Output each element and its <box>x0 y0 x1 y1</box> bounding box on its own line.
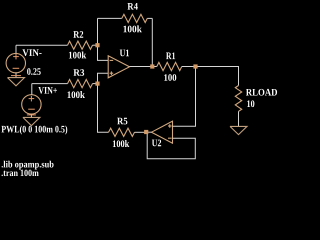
wire R2 to node A <box>93 44 98 46</box>
label R4 <box>127 3 137 10</box>
wire U2 output stub <box>146 131 151 133</box>
minus bar of V2 bottom pin <box>27 114 36 116</box>
label U2 <box>152 140 161 147</box>
wire row A from V1 to R2 <box>16 44 68 46</box>
value 100k of R5 <box>113 140 129 147</box>
wire V1 top vertical <box>15 45 17 53</box>
wire output node down to U2 non-inverting input <box>173 67 196 127</box>
ground under V2 <box>23 117 40 125</box>
resistor R2 <box>68 41 93 49</box>
wire node B down to R5 <box>98 84 109 133</box>
wire R5 to U2 output node <box>135 131 147 133</box>
wire row B from V2 to R3 <box>32 83 68 85</box>
wire R4 right lead <box>147 17 152 19</box>
label R5 <box>117 118 127 125</box>
ground under RLOAD <box>230 126 247 134</box>
value 100k of R3 <box>68 91 85 98</box>
resistor RLOAD <box>235 86 241 112</box>
wire R4 down to output node <box>151 18 153 66</box>
label U1 <box>120 50 129 57</box>
wire U2 inverting input feedback loop <box>147 133 195 159</box>
resistor R3 <box>68 80 93 88</box>
op-amp U2 (mirrored) <box>152 121 173 143</box>
directive .lib <box>2 161 54 170</box>
voltage source V1 (VIN-) <box>6 53 25 72</box>
value PWL of V2 <box>1 125 67 134</box>
value 100k of R4 <box>123 25 141 32</box>
label VIN+ <box>38 87 57 94</box>
node A junction <box>95 43 99 47</box>
node U2 output junction <box>144 130 148 134</box>
op-amp U1 <box>108 56 129 78</box>
wire U1 output to node <box>130 66 153 68</box>
wire R1 right lead to node <box>182 66 196 68</box>
value 0.25 of V1 <box>27 68 41 75</box>
resistor R4 <box>122 14 148 22</box>
minus bar of V1 bottom pin <box>11 75 21 77</box>
value 100 of R1 <box>164 74 176 81</box>
wire V2 top vertical <box>31 84 33 95</box>
resistor R1 <box>157 62 182 70</box>
wire V1 bottom stub <box>15 73 17 78</box>
wire V2 bottom stub <box>30 114 32 117</box>
value 10 of RLOAD <box>247 100 254 107</box>
label R1 <box>166 52 175 59</box>
wire RLOAD bottom stub <box>238 111 240 126</box>
label VIN- <box>22 49 41 56</box>
ground under V1 <box>8 78 25 86</box>
wire R4 left lead <box>98 17 122 19</box>
value 100k of R2 <box>69 51 86 58</box>
node U1 output junction <box>150 64 154 68</box>
wire node A to U1 inverting input <box>98 45 109 60</box>
node B junction <box>95 82 99 86</box>
wire node A up to R4 <box>97 18 99 45</box>
label R2 <box>73 31 83 38</box>
label R3 <box>73 69 84 76</box>
directive .tran <box>2 170 39 177</box>
resistor R5 <box>109 128 135 136</box>
label RLOAD <box>246 89 277 96</box>
wire output rail to RLOAD <box>196 67 239 86</box>
wire node B to U1 non-inverting input <box>98 73 109 83</box>
wire R1 left lead <box>152 66 157 68</box>
voltage source V2 (VIN+) <box>22 95 41 114</box>
node output rail junction <box>193 64 197 68</box>
wire R3 to node B <box>93 83 98 85</box>
